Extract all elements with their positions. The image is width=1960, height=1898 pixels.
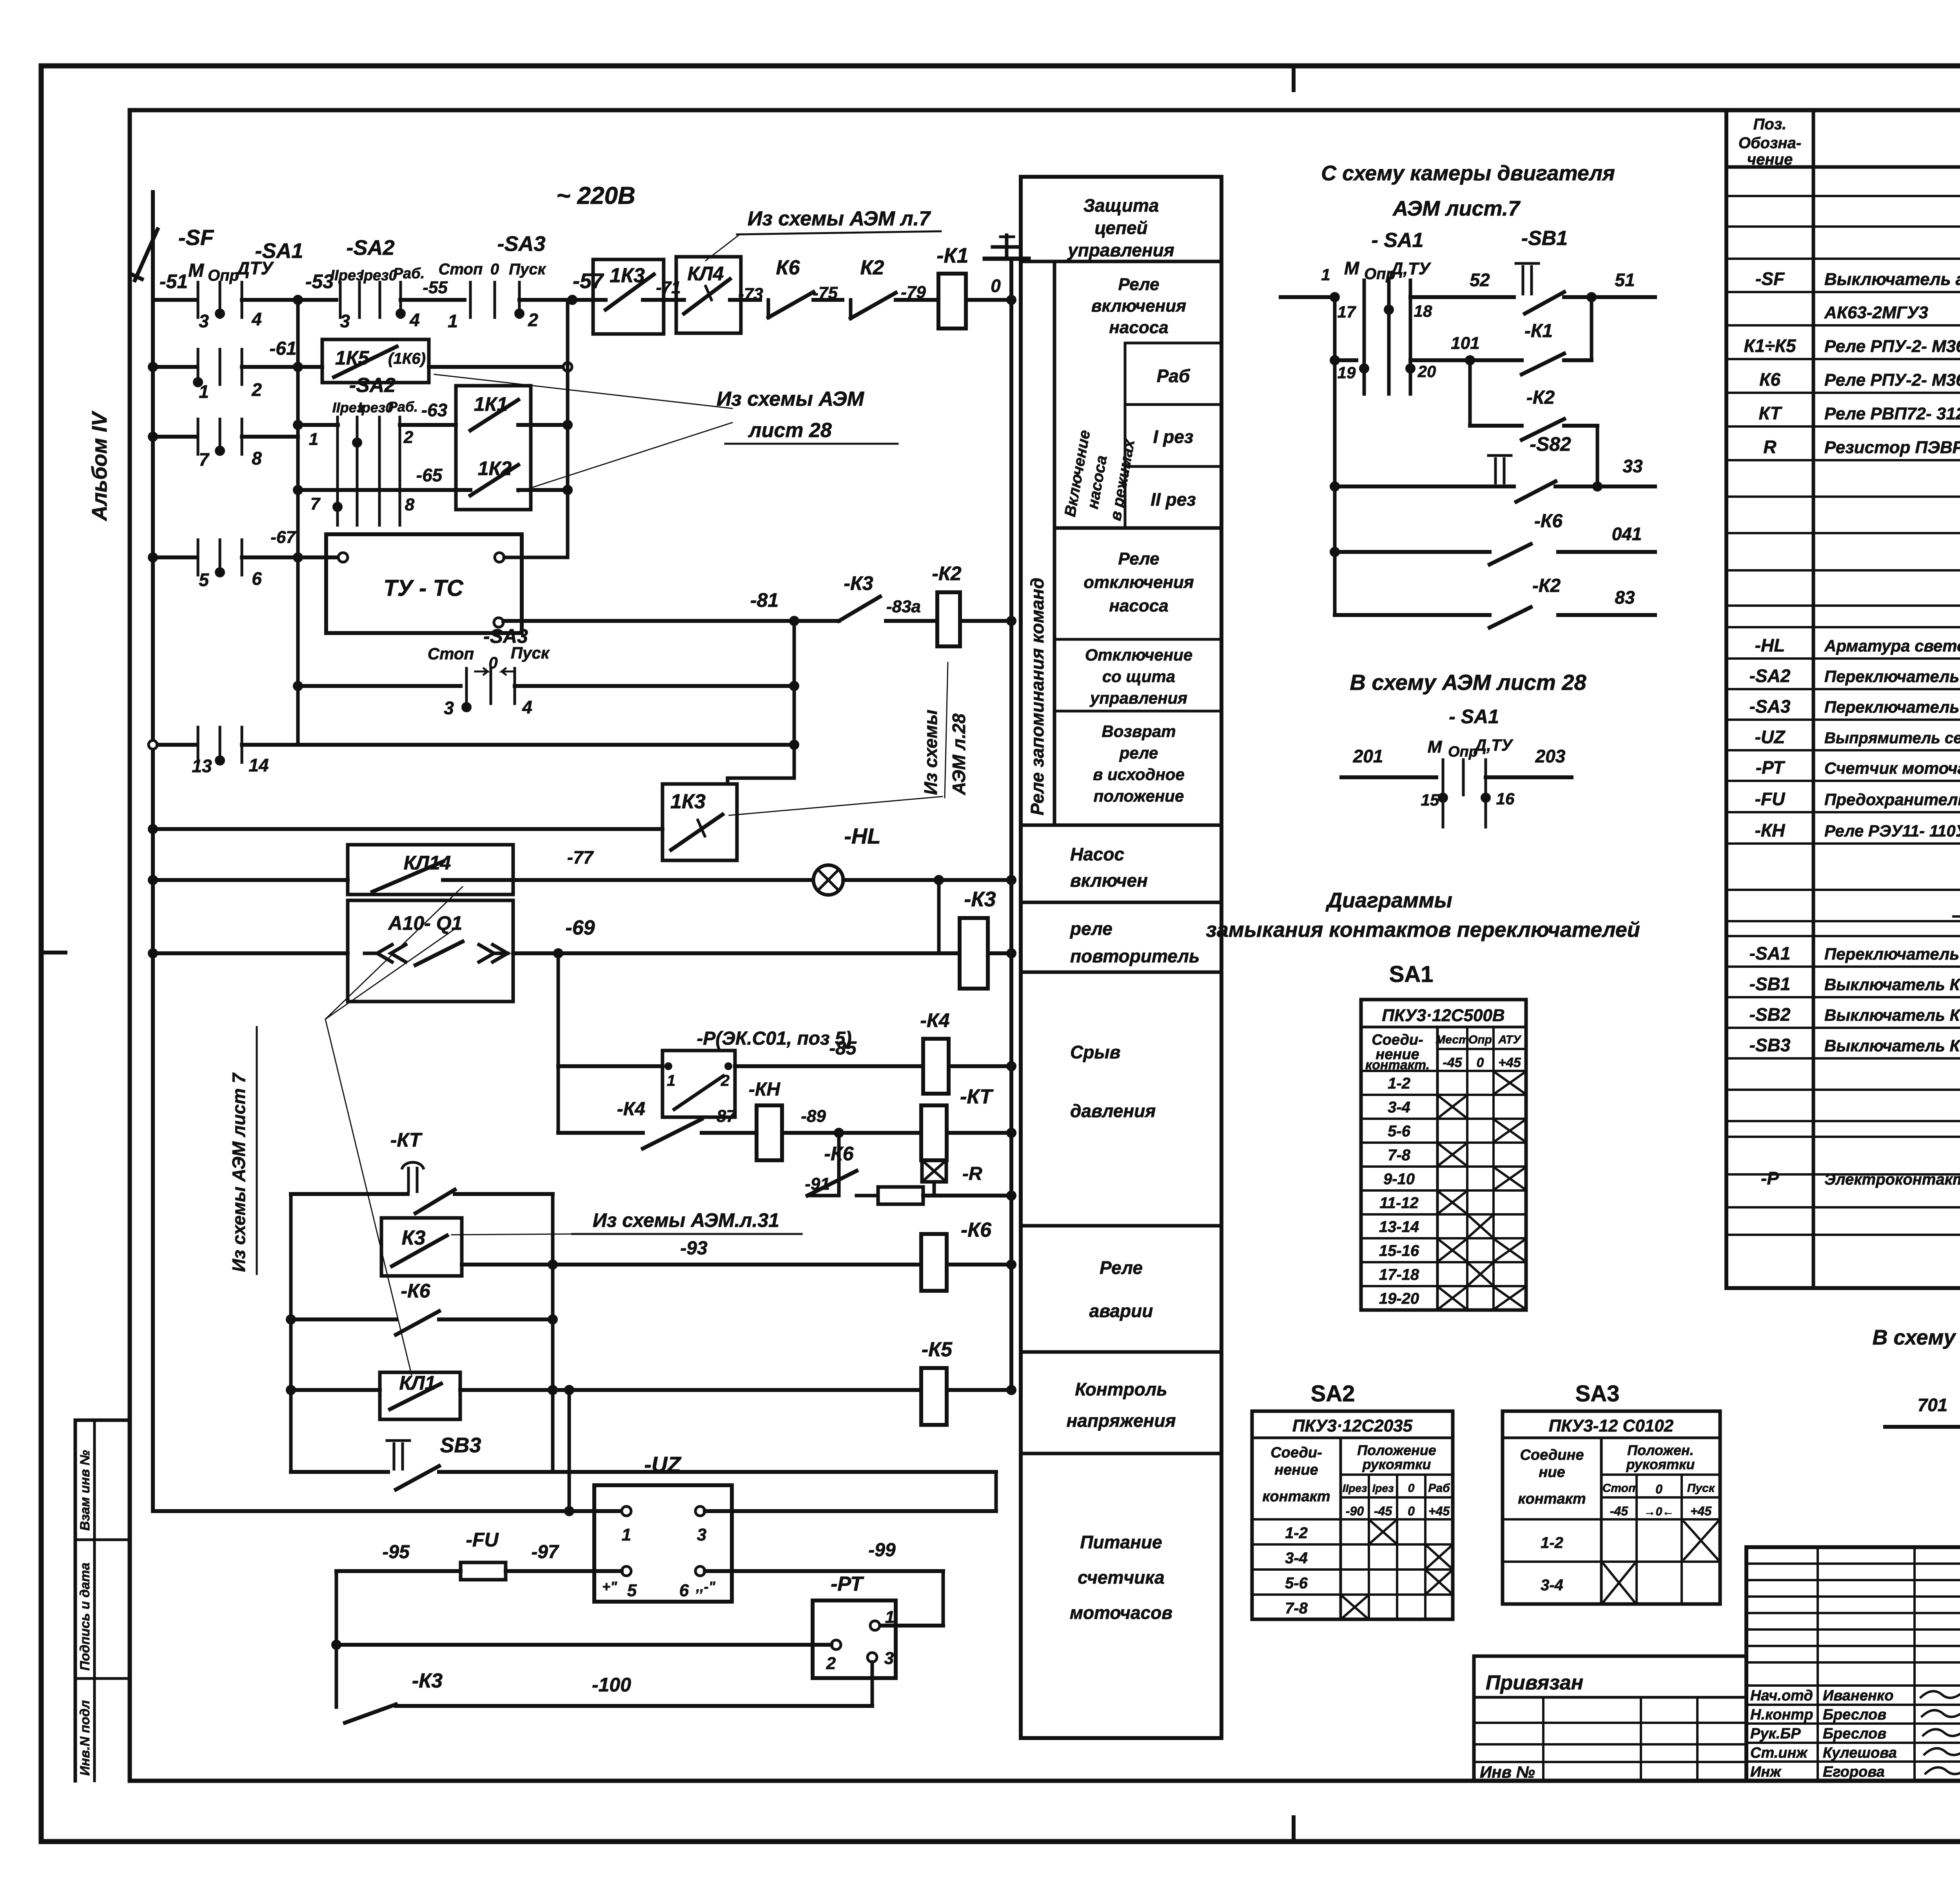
svg-text:-К6: -К6: [1534, 511, 1563, 532]
svg-text:Опр: Опр: [208, 267, 239, 284]
svg-text:Срыв: Срыв: [1070, 1042, 1120, 1062]
svg-text:- SA1: - SA1: [1372, 229, 1424, 252]
reference lines from AEM list 7 label: [325, 887, 463, 1019]
svg-text:лист 28: лист 28: [748, 419, 832, 442]
svg-text:АТУ: АТУ: [1498, 1033, 1522, 1046]
wire: [843, 878, 1011, 882]
svg-text:-69: -69: [565, 916, 595, 939]
svg-text:-63: -63: [421, 400, 448, 420]
svg-text:1-2: 1-2: [1541, 1534, 1563, 1551]
svg-text:-КТ: -КТ: [960, 1085, 994, 1108]
svg-text:7-8: 7-8: [1285, 1600, 1308, 1617]
svg-text:1-2: 1-2: [1285, 1524, 1308, 1542]
SA1 table rows and X marks: [1361, 1094, 1526, 1096]
svg-text:Егорова: Егорова: [1823, 1764, 1885, 1780]
wire: SA1 bank row 7-8: [153, 435, 195, 439]
svg-text:Переключатель ПКУ3- 12С0102 У2: Переключатель ПКУ3- 12С0102 У2: [1824, 698, 1960, 716]
wire: [519, 298, 572, 302]
hour counter PT: [813, 1600, 896, 1678]
svg-text:-SA3: -SA3: [483, 625, 528, 647]
wire to 0 rail: [966, 298, 1011, 302]
svg-text:контакт.: контакт.: [1365, 1058, 1430, 1072]
svg-text:Реле запоминания команд: Реле запоминания команд: [1027, 578, 1047, 815]
svg-text:-87: -87: [711, 1107, 737, 1126]
svg-text:АЭМ л.28: АЭМ л.28: [949, 713, 969, 795]
svg-text:- SA1: - SA1: [1449, 706, 1499, 728]
wire: [558, 1131, 643, 1135]
svg-text:-Р: -Р: [1761, 1168, 1779, 1189]
svg-text:-S82: -S82: [1530, 433, 1571, 455]
resistor R (crossed box under KT): [922, 1160, 946, 1182]
svg-text:1-2: 1-2: [1388, 1075, 1410, 1092]
svg-text:Контроль: Контроль: [1075, 1379, 1167, 1399]
svg-text:Положен.: Положен.: [1627, 1442, 1694, 1458]
relay contact K2 (chamber, bottom): [1335, 613, 1490, 617]
svg-text:-SF: -SF: [1755, 269, 1785, 289]
svg-text:-К5: -К5: [922, 1338, 953, 1361]
svg-text:4: 4: [409, 310, 420, 330]
svg-text:Реле: Реле: [1118, 275, 1159, 294]
svg-text:-КТ: -КТ: [390, 1129, 423, 1151]
relay contact K3 (box): [381, 1218, 462, 1276]
svg-text:5-6: 5-6: [1285, 1575, 1308, 1592]
svg-text:-57: -57: [573, 269, 604, 293]
svg-text:Реле: Реле: [1100, 1257, 1143, 1278]
wire: left power rail: [151, 235, 155, 1511]
svg-text:управления: управления: [1089, 689, 1187, 707]
component table row lines: [1726, 195, 1960, 197]
svg-text:1К2: 1К2: [478, 457, 512, 479]
svg-text:3: 3: [340, 311, 350, 331]
svg-text:Из схемы АЭМ.л.31: Из схемы АЭМ.л.31: [593, 1209, 779, 1231]
wire row 52-51: [1281, 295, 1335, 299]
svg-text:-97: -97: [531, 1542, 559, 1562]
wire: [937, 880, 941, 953]
svg-text:9-10: 9-10: [1383, 1170, 1415, 1188]
svg-text:6: 6: [679, 1581, 689, 1600]
svg-text:3-4: 3-4: [1285, 1550, 1308, 1567]
wire: SA1 bank row 13-14: [149, 740, 157, 749]
svg-text:1К1: 1К1: [474, 393, 508, 415]
svg-text:I рез: I рез: [1153, 426, 1194, 447]
svg-text:5-6: 5-6: [1388, 1123, 1411, 1140]
svg-text:-К1: -К1: [1524, 321, 1553, 341]
wire -89: [782, 1131, 921, 1135]
svg-text:-UZ: -UZ: [644, 1452, 681, 1477]
svg-text:-100: -100: [592, 1674, 631, 1696]
svg-text:Резистор ПЭВР-50: Резистор ПЭВР-50: [1824, 438, 1960, 457]
svg-text:-FU: -FU: [1755, 789, 1786, 809]
svg-text:Реле: Реле: [1118, 549, 1159, 568]
svg-text:КТ: КТ: [1759, 403, 1783, 423]
svg-text:Н.контр: Н.контр: [1750, 1707, 1813, 1723]
svg-text:Мест: Мест: [1436, 1033, 1469, 1046]
SA1 contact diagram table: [1361, 1000, 1526, 1310]
svg-text:-85: -85: [829, 1038, 857, 1059]
svg-text:-91: -91: [805, 1174, 830, 1194]
svg-text:Инв №: Инв №: [1480, 1763, 1535, 1781]
relay contact K4: [643, 1119, 702, 1149]
svg-text:-SB3: -SB3: [1749, 1035, 1791, 1055]
rectifier UZ: [594, 1485, 732, 1602]
svg-text:2: 2: [251, 379, 262, 400]
svg-text:-SA1: -SA1: [255, 239, 303, 263]
relay contact K6 (chamber): [1335, 550, 1490, 554]
svg-text:-SA1: -SA1: [1749, 943, 1791, 964]
svg-text:включен: включен: [1070, 870, 1148, 891]
svg-text:ТУ - ТС: ТУ - ТС: [383, 575, 464, 601]
svg-text:-73: -73: [738, 285, 763, 304]
svg-text:-45: -45: [1610, 1504, 1628, 1518]
title block left grid: [1746, 1562, 1960, 1565]
svg-text:-61: -61: [269, 338, 296, 359]
svg-text:со щита: со щита: [1102, 667, 1175, 686]
svg-text:Альбом IV: Альбом IV: [88, 411, 111, 522]
svg-text:В схему сигнализации АЭМ ли: В схему сигнализации АЭМ лист 44: [1873, 1326, 1960, 1349]
svg-text:Iрез0: Iрез0: [359, 267, 397, 284]
svg-text:-К2: -К2: [1526, 387, 1555, 408]
svg-text:Иваненко: Иваненко: [1823, 1688, 1893, 1704]
wire: [153, 878, 348, 882]
svg-text:Электроконтактный манометр ЭК: Электроконтактный манометр ЭКМ-1У: [1824, 1171, 1960, 1188]
svg-text:положение: положение: [1094, 787, 1184, 805]
SA2 contact diagram table: [1252, 1411, 1453, 1619]
relay coil K1: [938, 274, 966, 328]
svg-text:,,-": ,,-": [695, 1579, 715, 1595]
svg-text:1: 1: [448, 311, 458, 331]
relay coil KN: [757, 1105, 782, 1160]
svg-text:Выключатель автоматический: Выключатель автоматический: [1824, 270, 1960, 289]
svg-text:КЛ4: КЛ4: [688, 263, 724, 285]
wire: SA1 bank row 1-2: [153, 365, 195, 369]
telemetry unit TU-TC box: [326, 534, 522, 633]
svg-text:17-18: 17-18: [1379, 1266, 1419, 1283]
svg-text:Стоп: Стоп: [428, 644, 474, 663]
svg-text:-SA2: -SA2: [346, 236, 394, 259]
wire: [793, 621, 796, 778]
wire: [557, 953, 560, 1133]
wire -69: [513, 951, 960, 955]
svg-text:3-4: 3-4: [1388, 1099, 1410, 1116]
svg-text:IIрез: IIрез: [330, 267, 364, 284]
relay contact K2: [851, 293, 896, 318]
wire: top bus segment from SF: [153, 298, 195, 302]
svg-text:управления: управления: [1067, 240, 1174, 260]
resistor R (series): [878, 1187, 923, 1204]
svg-text:-89: -89: [801, 1107, 826, 1126]
svg-text:~ 220В: ~ 220В: [556, 182, 635, 209]
relay contact 1K5 (1K6) box: [322, 339, 429, 383]
svg-text:-SA2: -SA2: [349, 374, 396, 397]
svg-text:3: 3: [884, 1649, 894, 1668]
relay coil K2: [937, 592, 960, 646]
svg-text:52: 52: [1470, 270, 1490, 290]
svg-text:аварии: аварии: [1089, 1301, 1153, 1321]
svg-text:В схему АЭМ лист 28: В схему АЭМ лист 28: [1350, 670, 1586, 695]
svg-text:реле: реле: [1119, 744, 1158, 762]
svg-text:3: 3: [444, 698, 454, 718]
svg-text:-75: -75: [813, 283, 838, 303]
svg-text:-SB1: -SB1: [1521, 227, 1568, 250]
svg-text:0: 0: [1655, 1482, 1662, 1496]
wire: branch left bus: [289, 1194, 293, 1472]
svg-text:→0←: →0←: [1644, 1505, 1674, 1518]
svg-text:SA3: SA3: [1575, 1381, 1620, 1406]
relay coil K3: [960, 918, 988, 989]
svg-text:-99: -99: [868, 1540, 896, 1560]
svg-text:Выключатель КЕ011У3 исп. 4: Выключатель КЕ011У3 исп. 4: [1824, 1006, 1960, 1024]
wire to PT pin 2: [336, 1643, 831, 1647]
svg-text:Соеди-: Соеди-: [1270, 1444, 1322, 1461]
svg-text:Из схемы: Из схемы: [920, 709, 941, 795]
svg-text:-К3: -К3: [964, 887, 996, 911]
svg-text:К2: К2: [860, 256, 884, 279]
svg-text:контакт: контакт: [1518, 1491, 1586, 1507]
title block frame: [1746, 1545, 1960, 1549]
svg-text:201: 201: [1353, 746, 1383, 766]
svg-text:-SB1: -SB1: [1749, 974, 1791, 994]
svg-text:0: 0: [1408, 1504, 1415, 1518]
svg-text:1К3: 1К3: [670, 790, 706, 813]
svg-text:контакт: контакт: [1262, 1488, 1330, 1505]
ground symbol: [1005, 235, 1009, 259]
svg-text:17: 17: [1338, 303, 1356, 321]
relay contact K6: [808, 1194, 839, 1198]
svg-text:51: 51: [1615, 270, 1635, 290]
svg-text:-КН: -КН: [749, 1079, 780, 1100]
svg-text:Из схемы АЭМ лист 7: Из схемы АЭМ лист 7: [229, 1072, 249, 1272]
svg-text:чение: чение: [1747, 151, 1793, 168]
svg-text:203: 203: [1535, 746, 1566, 766]
svg-text:-К3: -К3: [844, 572, 873, 594]
left stamp column boxes: [74, 1420, 77, 1781]
svg-text:Стоп: Стоп: [439, 261, 483, 278]
svg-text:Привязан: Привязан: [1486, 1671, 1583, 1694]
svg-text:19-20: 19-20: [1379, 1290, 1419, 1307]
svg-text:-77: -77: [567, 847, 594, 867]
svg-text:Д,ТУ: Д,ТУ: [1389, 259, 1432, 278]
svg-text:1: 1: [667, 1072, 675, 1089]
wire: right 0-rail: [1009, 259, 1013, 1390]
relay contact 1K3 (box): [593, 259, 664, 334]
svg-text:-83а: -83а: [886, 597, 921, 616]
signal lamp HL: [813, 865, 843, 895]
relay coil K4: [923, 1039, 949, 1094]
svg-text:-К1: -К1: [936, 244, 968, 267]
svg-text:Выпрямитель селеновый СВ24-3АУ: Выпрямитель селеновый СВ24-3АУХЛ4: [1824, 729, 1960, 747]
svg-text:ПКУ3-12 С0102: ПКУ3-12 С0102: [1549, 1416, 1674, 1435]
svg-text:-UZ: -UZ: [1755, 727, 1786, 747]
SA3 contact diagram table: [1503, 1411, 1720, 1604]
svg-text:7: 7: [199, 449, 210, 470]
svg-text:Реле РПУ-2- М36220У3Б: Реле РПУ-2- М36220У3Б: [1824, 337, 1960, 356]
svg-text:счетчика: счетчика: [1078, 1567, 1165, 1588]
svg-text:К3: К3: [402, 1227, 426, 1249]
SA3 table rows and X marks: [1503, 1560, 1720, 1563]
svg-text:насоса: насоса: [1109, 596, 1168, 615]
svg-text:ПКУ3·12С500В: ПКУ3·12С500В: [1382, 1006, 1505, 1025]
svg-text:Переключатель ПКУ3- 12С500ВУ2: Переключатель ПКУ3- 12С500ВУ2: [1824, 945, 1960, 963]
svg-text:R: R: [1763, 437, 1776, 457]
centering mark top: [1292, 66, 1296, 90]
svg-text:Iрез: Iрез: [1372, 1482, 1394, 1494]
wire: left branch vertical: [335, 1571, 338, 1707]
svg-text:цепей: цепей: [1094, 218, 1147, 238]
svg-text:-HL: -HL: [1755, 635, 1785, 655]
wire: [298, 488, 470, 492]
svg-text:-79: -79: [901, 283, 926, 302]
svg-text:-95: -95: [382, 1542, 410, 1562]
svg-text:-SF: -SF: [178, 225, 214, 250]
svg-text:-45: -45: [1443, 1055, 1462, 1070]
relay contact K3 (bottom) / wire -100: [345, 1704, 396, 1723]
svg-text:2: 2: [826, 1654, 836, 1673]
svg-text:14: 14: [249, 755, 269, 775]
svg-text:М: М: [1428, 737, 1443, 757]
svg-text:1: 1: [1321, 265, 1330, 284]
svg-text:13-14: 13-14: [1379, 1218, 1419, 1236]
svg-text:К6: К6: [776, 256, 800, 279]
svg-text:5: 5: [627, 1581, 637, 1600]
svg-text:1: 1: [622, 1525, 631, 1544]
svg-text:-45: -45: [1374, 1504, 1392, 1518]
wire: SA1 bank row 5-6: [153, 555, 195, 559]
wire -85: [735, 1064, 923, 1068]
function table frame: [1021, 177, 1221, 1738]
svg-text:-SB2: -SB2: [1749, 1004, 1791, 1025]
svg-text:-Р(ЭК.С01, поз 5): -Р(ЭК.С01, поз 5): [697, 1028, 851, 1049]
svg-text:-55: -55: [423, 278, 448, 297]
svg-text:18: 18: [1414, 302, 1432, 320]
relay contacts 1K1/1K2 (box): [456, 386, 531, 510]
svg-text:Реле РЭУ11- 110У3: Реле РЭУ11- 110У3: [1824, 822, 1960, 840]
wire: rail at -53 column: [296, 300, 300, 745]
svg-text:Раб.: Раб.: [393, 265, 425, 282]
svg-text:15: 15: [1421, 791, 1439, 809]
svg-text:Взам инв №: Взам инв №: [78, 1450, 93, 1531]
switch SA3 contacts (top row): [469, 282, 472, 318]
relay contact 1K2: [470, 465, 518, 495]
component table header: [1726, 165, 1960, 169]
svg-text:1: 1: [309, 430, 318, 449]
svg-text:Кулешова: Кулешова: [1823, 1745, 1897, 1761]
svg-text:15-16: 15-16: [1379, 1242, 1419, 1259]
svg-text:II рез: II рез: [1151, 489, 1196, 510]
wire: [153, 951, 348, 955]
svg-text:-К2: -К2: [932, 563, 961, 584]
svg-text:Нач.отд: Нач.отд: [1750, 1688, 1813, 1704]
svg-text:отключения: отключения: [1083, 573, 1194, 592]
svg-text:0: 0: [991, 276, 1001, 296]
svg-text:Соедине: Соедине: [1520, 1447, 1584, 1463]
wire to K5 coil: [553, 1388, 921, 1392]
svg-text:Переключатель ПКУ3-12С2035У2: Переключатель ПКУ3-12С2035У2: [1824, 667, 1960, 686]
svg-text:Счетчик моточасов 22ВЧП: Счетчик моточасов 22ВЧП: [1824, 759, 1960, 777]
wire from UZ pin 3: [705, 1509, 996, 1513]
svg-text:Бреслов: Бреслов: [1823, 1707, 1886, 1723]
svg-text:-67: -67: [270, 528, 296, 547]
svg-text:Предохранитель ПН-50: Предохранитель ПН-50: [1824, 790, 1960, 809]
relay contact KL4 (box, from AEM sheet 7): [676, 257, 741, 333]
wire: branch right bus: [551, 1194, 555, 1472]
svg-text:5: 5: [199, 570, 209, 590]
svg-text:20: 20: [1417, 362, 1436, 381]
wire: [504, 556, 568, 559]
fuse FU: [461, 1562, 506, 1580]
svg-text:Обозна-: Обозна-: [1739, 134, 1801, 152]
wire: [242, 298, 298, 302]
push button SB3: [291, 1470, 388, 1474]
svg-text:6: 6: [252, 568, 262, 589]
svg-text:+": +": [602, 1579, 617, 1595]
svg-text:С схему камеры двигателя: С схему камеры двигателя: [1321, 161, 1615, 185]
svg-text:4: 4: [522, 697, 532, 717]
svg-text:рукоятки: рукоятки: [1362, 1456, 1431, 1472]
relay contact KL1 (box): [291, 1388, 380, 1392]
relay contact 1K3 (memory relay): [662, 784, 737, 860]
svg-text:АЭМ лист.7: АЭМ лист.7: [1392, 197, 1521, 220]
svg-text:-К3: -К3: [412, 1669, 443, 1692]
wire: [429, 365, 568, 369]
svg-text:-SA3: -SA3: [1749, 696, 1791, 717]
wire 701: [1885, 1425, 1960, 1429]
svg-text:13: 13: [192, 756, 212, 776]
svg-text:16: 16: [1496, 789, 1515, 808]
svg-text:+45: +45: [1498, 1055, 1521, 1070]
svg-text:Опр: Опр: [1468, 1033, 1492, 1046]
svg-text:-К6: -К6: [961, 1219, 992, 1241]
node -55: [401, 298, 465, 302]
wire from 1K3 to junction column: [726, 778, 730, 784]
svg-text:-FU: -FU: [466, 1529, 499, 1551]
wire -99 from UZ pin 6: [705, 1569, 943, 1573]
svg-text:4: 4: [251, 309, 262, 329]
function table row lines: [1021, 260, 1221, 263]
svg-text:моточасов: моточасов: [1070, 1602, 1172, 1623]
svg-text:-93: -93: [680, 1238, 708, 1259]
svg-text:SA1: SA1: [1389, 962, 1434, 987]
svg-text:8: 8: [405, 495, 415, 514]
svg-text:-53: -53: [305, 270, 334, 292]
fuse FU / -95 / -97 row: [336, 1569, 461, 1573]
svg-text:3-4: 3-4: [1541, 1577, 1563, 1594]
svg-text:Положение: Положение: [1357, 1442, 1436, 1458]
svg-text:-КН: -КН: [1755, 820, 1786, 840]
svg-text:замыкания контактов переключ: замыкания контактов переключателей: [1206, 918, 1640, 942]
svg-text:давления: давления: [1070, 1101, 1156, 1121]
svg-text:нение: нение: [1274, 1462, 1318, 1478]
svg-text:Возврат: Возврат: [1102, 722, 1176, 740]
contact A10-Q1 (box with chevrons): [348, 900, 513, 1002]
svg-text:-SA3: -SA3: [497, 232, 545, 256]
svg-text:Защита: Защита: [1083, 195, 1159, 216]
svg-text:-К6: -К6: [401, 1280, 430, 1302]
wire to UZ pin 1: [153, 1509, 626, 1513]
svg-text:рукоятки: рукоятки: [1626, 1456, 1695, 1472]
svg-text:повторитель: повторитель: [1070, 946, 1200, 966]
relay contact K6: [768, 292, 813, 318]
svg-text:2: 2: [720, 1072, 730, 1089]
svg-text:8: 8: [252, 448, 262, 468]
svg-text:-К4: -К4: [920, 1009, 949, 1031]
svg-text:(1К6): (1К6): [388, 350, 426, 367]
svg-text:Арматура светосигнальная АС120: Арматура светосигнальная АС12011У2: [1824, 637, 1960, 655]
svg-text:+45: +45: [1690, 1504, 1712, 1518]
svg-text:0: 0: [490, 261, 499, 278]
circuit breaker SF: [151, 192, 155, 235]
svg-text:Подпись и дата: Подпись и дата: [78, 1562, 93, 1671]
relay contact KL14 (box): [348, 845, 513, 895]
